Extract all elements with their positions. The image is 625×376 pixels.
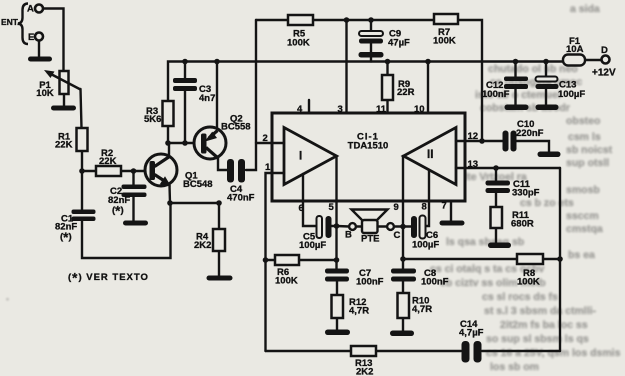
- wire right bus down: [559, 168, 561, 351]
- svg-text:4,7R: 4,7R: [349, 306, 369, 317]
- junction node C3 top on rail: [182, 59, 188, 65]
- svg-text:100nF: 100nF: [482, 89, 510, 100]
- wire R8 right to bus: [543, 258, 560, 260]
- svg-text:bs ea: bs ea: [568, 249, 595, 261]
- wire pin 13 to right bus: [465, 167, 560, 169]
- junction node speaker C / pin9: [400, 224, 406, 230]
- wire pin 6 line down to C5: [303, 174, 317, 226]
- svg-text:22R: 22R: [397, 87, 415, 98]
- resistor R12 body: [332, 295, 344, 318]
- junction node Q2 base / R3: [165, 140, 171, 146]
- wire R6 left lead: [266, 259, 276, 261]
- wire Q1 collector up to base node of Q2: [168, 144, 170, 155]
- junction node R8 right on bus: [557, 256, 563, 262]
- resistor R11 body: [491, 207, 503, 228]
- svg-text:22K: 22K: [99, 156, 117, 167]
- wire bottom rail left of R13: [266, 350, 352, 352]
- transistor Q2 emitter stroke with arrow toward base: [209, 131, 218, 139]
- wire C7 bottom to R12: [336, 282, 338, 296]
- wire C5 right to pin5 line: [332, 225, 337, 227]
- svg-text:cmstqa: cmstqa: [566, 223, 603, 235]
- wire op-amp I apex down to pin 5: [335, 156, 337, 202]
- ground right of C10: [538, 152, 561, 158]
- potentiometer P1 body: [60, 71, 69, 94]
- capacitor C2 plates: [122, 185, 147, 190]
- wire op-amp II output edge to pin 12: [456, 140, 466, 142]
- capacitor C14 plates: [462, 341, 470, 363]
- svg-text:10A: 10A: [566, 44, 584, 55]
- ground below C13: [536, 105, 559, 111]
- junction node R6 left on pin1 line: [263, 257, 269, 263]
- capacitor C9 bottom bar: [359, 52, 384, 58]
- wire C2 top lead: [132, 171, 134, 185]
- wire top rail y20 left of R5: [256, 19, 288, 21]
- ground below R12: [325, 330, 350, 336]
- junction node R9 on rail: [385, 59, 391, 65]
- resistor R4 body: [213, 229, 225, 251]
- capacitor C13 lower plate: [536, 84, 559, 89]
- wire Q2 emitter up to rail: [216, 62, 218, 130]
- wire pin 10 to rail: [427, 62, 429, 114]
- junction node R1/R2/C1: [79, 168, 85, 174]
- wire vertical x256 from rail to C4: [246, 20, 256, 170]
- svg-text:4n7: 4n7: [199, 93, 215, 104]
- svg-text:D: D: [601, 45, 608, 56]
- junction node C2 tap: [131, 168, 137, 174]
- junction node R6 right on pin5 line: [334, 257, 340, 263]
- wire pin9 node to R8 left: [403, 258, 517, 260]
- svg-text:csm ls: csm ls: [568, 131, 601, 143]
- terminal C: [387, 223, 394, 230]
- svg-text:2: 2: [263, 133, 268, 144]
- wire C11 top lead: [495, 168, 497, 181]
- wire C2 bottom to ground: [132, 197, 134, 221]
- transistor Q2 circle: [194, 127, 226, 159]
- svg-text:los sb om: los sb om: [490, 361, 539, 373]
- junction node R8 left / pin9: [400, 256, 406, 262]
- wire op-amp II lower edge down to pin 8: [428, 170, 430, 202]
- wire op-amp I lower edge down to pin 6: [302, 174, 304, 202]
- wire C3 bottom lead: [184, 91, 186, 143]
- capacitor C6 hollow right plate: [420, 216, 426, 239]
- junction node pin12/C10: [479, 138, 485, 144]
- wire node to R2 left: [82, 170, 96, 172]
- svg-text:4,7R: 4,7R: [412, 304, 432, 315]
- resistor R2 body: [96, 166, 121, 176]
- junction node C13 on rail: [543, 59, 549, 65]
- wire P1 wiper down to R1: [81, 89, 82, 128]
- svg-text:330pF: 330pF: [512, 188, 540, 199]
- svg-text:5: 5: [329, 202, 335, 213]
- fuse F1 body: [563, 55, 585, 66]
- capacitor C4 plates: [227, 159, 234, 183]
- wire C8 bottom to R10: [402, 282, 404, 294]
- ground below P1: [51, 106, 76, 111]
- junction node Q1 emitter: [167, 200, 173, 206]
- wire pin 3 to top rail: [345, 20, 347, 113]
- wire R10 bottom to ground: [402, 318, 404, 331]
- svg-text:TDA1510: TDA1510: [348, 141, 389, 152]
- transistor Q1 base bar: [150, 161, 156, 180]
- svg-text:10: 10: [414, 104, 425, 115]
- capacitor C10 plates: [503, 131, 509, 152]
- svg-text:2K2: 2K2: [356, 367, 373, 376]
- wire C1 bottom loop to Q1 emitter node: [82, 203, 171, 258]
- svg-text:10K: 10K: [36, 88, 54, 99]
- svg-text:C: C: [394, 230, 401, 241]
- svg-text:E: E: [28, 32, 34, 43]
- op-amp II triangle: [404, 128, 457, 185]
- svg-text:100K: 100K: [287, 38, 310, 49]
- wire pin 2 stub: [256, 142, 284, 144]
- terminal A: [35, 5, 43, 13]
- capacitor C5 filled plate: [326, 216, 332, 238]
- wire C12 bottom to ground: [514, 89, 516, 105]
- terminal B: [349, 223, 356, 230]
- junction node C12 on rail: [513, 59, 519, 65]
- svg-text:BC548: BC548: [183, 179, 213, 190]
- wire node to B terminal: [337, 225, 350, 228]
- junction node pin10 on rail: [425, 59, 431, 65]
- wire Q1 emitter down: [168, 185, 171, 203]
- terminal D: [602, 56, 610, 64]
- svg-text:I: I: [299, 151, 302, 163]
- resistor R3 body: [163, 101, 174, 126]
- capacitor C8 plates: [391, 269, 416, 274]
- wire node to C1 top: [81, 172, 83, 210]
- capacitor C13 top hollow plate: [536, 77, 558, 82]
- wire pin 2 inner stub to op-amp I input edge: [271, 142, 284, 144]
- wire fuse to D terminal: [585, 59, 602, 61]
- svg-text:47µF: 47µF: [388, 38, 410, 49]
- wire pin 1 inner stub to op-amp I input edge: [271, 172, 284, 174]
- wire top rail y20 R5 to corner and down to pin12 node: [313, 20, 482, 141]
- capacitor C9 top hollow plate: [359, 31, 383, 36]
- capacitor C1 plates: [72, 210, 96, 215]
- wire R9 bottom to pin 11: [386, 100, 388, 113]
- capacitor C6 filled plate: [411, 216, 417, 238]
- svg-text:B: B: [345, 230, 352, 241]
- svg-text:100K: 100K: [517, 277, 540, 288]
- svg-text:100µF: 100µF: [558, 89, 585, 100]
- wire C13 bottom to ground: [545, 89, 547, 105]
- wire C9 bottom stub: [370, 57, 372, 62]
- ground below C2: [123, 221, 148, 226]
- ground below R11: [488, 243, 511, 249]
- resistor R9 body: [382, 75, 393, 100]
- wire pin 12 to C10: [465, 140, 503, 142]
- wire R6 right lead: [299, 259, 337, 261]
- svg-text:100K: 100K: [275, 276, 298, 287]
- wire R2 right to Q1 base: [121, 170, 148, 172]
- capacitor C9 lower plate: [359, 39, 383, 44]
- wire pin 7 to ground: [450, 201, 452, 221]
- wire C9 top lead: [370, 20, 372, 32]
- svg-text:a sida: a sida: [570, 3, 600, 15]
- wire pin 1 down to bottom rail: [266, 173, 285, 351]
- capacitor C12 plates: [504, 77, 528, 82]
- transistor Q1 emitter stroke with arrow: [155, 175, 167, 183]
- wire pin 5 line from amp apex down to C7: [335, 156, 337, 269]
- junction node C9 on top rail: [368, 17, 374, 23]
- resistor R8 body: [517, 254, 543, 264]
- wire emitter node to R4 top node: [170, 202, 219, 204]
- wire R11 bottom to ground: [495, 228, 497, 243]
- ENT input brace: [18, 4, 28, 45]
- wire +V rail y62 with turn down to R3: [168, 62, 563, 102]
- transistor Q2 collector stroke: [206, 148, 219, 159]
- wire R4 bottom to ground: [218, 251, 220, 276]
- svg-text:st s.l 3 sbsm da ctmlli-: st s.l 3 sbsm da ctmlli-: [484, 305, 597, 317]
- wire op-amp II apex down to pin 9: [402, 156, 404, 202]
- resistor R6 body: [275, 255, 299, 265]
- transistor Q1 collector stroke: [155, 157, 170, 167]
- transistor Q1 circle: [145, 154, 177, 186]
- svg-text:6: 6: [299, 203, 304, 214]
- wire R4 top lead: [218, 203, 220, 229]
- resistor R13 body: [351, 346, 376, 356]
- svg-text:sb noicst: sb noicst: [566, 144, 613, 156]
- svg-text:100nF: 100nF: [356, 277, 384, 288]
- svg-text:100K: 100K: [433, 36, 456, 47]
- svg-text:BC558: BC558: [221, 122, 251, 133]
- capacitor C3 plates: [173, 78, 197, 83]
- wire bottom rail C14 to bus: [482, 350, 560, 352]
- transistor Q2 base bar: [201, 134, 207, 154]
- ground pin 7: [440, 221, 465, 226]
- svg-text:A: A: [27, 4, 34, 15]
- resistor R5 body: [288, 15, 313, 25]
- wire pin 4 stub: [308, 100, 310, 113]
- svg-text:1: 1: [265, 162, 271, 173]
- svg-text:+12V: +12V: [592, 68, 616, 79]
- svg-text:4: 4: [297, 104, 303, 115]
- wire R3 bottom lead: [167, 126, 169, 143]
- wire pin 8 line down to C6: [426, 170, 430, 226]
- capacitor C5 hollow left plate: [317, 216, 323, 238]
- wire B to speaker body: [356, 225, 362, 227]
- wire Q2 collector to C4: [218, 158, 227, 170]
- wire op-amp II output edge to pin 13: [456, 167, 466, 169]
- svg-text:22K: 22K: [55, 140, 73, 151]
- ground below R10: [390, 331, 414, 337]
- capacitor C7 plates: [325, 269, 349, 274]
- svg-text:100µF: 100µF: [299, 240, 326, 251]
- speaker PTE cone: [352, 210, 388, 221]
- wire C9 middle stub: [370, 43, 372, 52]
- svg-text:100µF: 100µF: [412, 240, 439, 251]
- wire C terminal to C6: [394, 225, 411, 227]
- wire R1 bottom to node R1/R2/C1: [81, 151, 83, 172]
- terminal E: [35, 33, 43, 41]
- svg-text:680R: 680R: [511, 219, 534, 230]
- ground below C12: [505, 105, 529, 111]
- svg-text:cs 16 a 25V, qsm los dsmis: cs 16 a 25V, qsm los dsmis: [486, 347, 621, 359]
- svg-text:470nF: 470nF: [227, 193, 255, 204]
- svg-text:13: 13: [468, 159, 479, 170]
- wire C10 right to ground: [517, 141, 550, 152]
- svg-text:5K6: 5K6: [144, 114, 161, 125]
- svg-text:obsteo: obsteo: [566, 115, 600, 127]
- svg-text:11: 11: [376, 104, 387, 115]
- wire R9 top lead: [386, 62, 388, 76]
- svg-text:ENT.: ENT.: [1, 17, 19, 27]
- speaker PTE body: [362, 220, 378, 233]
- svg-text:9: 9: [394, 202, 399, 213]
- wire C13 top lead: [545, 62, 547, 78]
- junction node C11 on pin13 wire: [493, 165, 499, 171]
- wire node to Q2 base: [168, 142, 203, 144]
- junction node Q2 emitter on rail: [214, 59, 220, 65]
- svg-text:cs sl rocs ds fs: cs sl rocs ds fs: [482, 291, 558, 303]
- wire R12 bottom to ground: [336, 318, 338, 330]
- svg-text:ls qsa sbsaq sb: ls qsa sbsaq sb: [446, 236, 524, 248]
- svg-text:2K2: 2K2: [194, 240, 211, 251]
- op-amp I triangle: [284, 128, 337, 185]
- P1 wiper arrowhead: [44, 70, 55, 78]
- wire C3 top lead: [184, 62, 186, 79]
- resistor R10 body: [398, 293, 410, 318]
- wire C11 bottom to R11: [495, 193, 497, 207]
- junction node C3 bottom: [182, 140, 188, 146]
- svg-text:12: 12: [468, 131, 479, 142]
- svg-text:220nF: 220nF: [516, 128, 544, 139]
- potentiometer P1 wiper arrow line: [47, 72, 81, 90]
- wire C12 top lead: [514, 62, 516, 78]
- svg-text:.: .: [6, 291, 9, 303]
- junction node pin3 on top rail: [344, 17, 350, 23]
- svg-text:100nF: 100nF: [421, 277, 449, 288]
- svg-text:PTE: PTE: [361, 234, 379, 245]
- svg-text:ssccm: ssccm: [566, 210, 599, 222]
- wire A terminal to P1 top: [43, 9, 64, 72]
- IC CI-1 TDA1510 box: [272, 113, 465, 201]
- wire E terminal to ground: [38, 41, 40, 58]
- junction node R4 top: [216, 200, 222, 206]
- wire speaker body to C terminal: [378, 225, 388, 227]
- wire bottom rail R13 to C14: [376, 350, 461, 352]
- svg-text:3: 3: [338, 104, 343, 115]
- svg-text:7: 7: [442, 201, 447, 212]
- svg-text:cs b zo ets: cs b zo ets: [520, 197, 574, 209]
- svg-text:so sup sl sbsm ls qs: so sup sl sbsm ls qs: [486, 333, 589, 345]
- svg-text:II: II: [427, 149, 433, 161]
- svg-text:smosb: smosb: [566, 184, 600, 196]
- svg-text:8: 8: [422, 202, 427, 213]
- svg-text:sup otsll: sup otsll: [566, 157, 609, 169]
- ground below R4: [207, 276, 233, 281]
- wire P1 bottom to ground: [63, 94, 65, 107]
- junction node C5/B on pin5 line: [334, 223, 340, 229]
- ground below E: [28, 57, 52, 62]
- resistor R7 body: [434, 14, 458, 24]
- capacitor C11 plates: [486, 181, 511, 186]
- resistor R1 body: [77, 128, 88, 151]
- svg-text:2it2m fs ba loc ss: 2it2m fs ba loc ss: [500, 319, 588, 331]
- wire pin 9 line from amp apex down to C8: [402, 156, 404, 269]
- svg-text:4,7µF: 4,7µF: [459, 328, 484, 339]
